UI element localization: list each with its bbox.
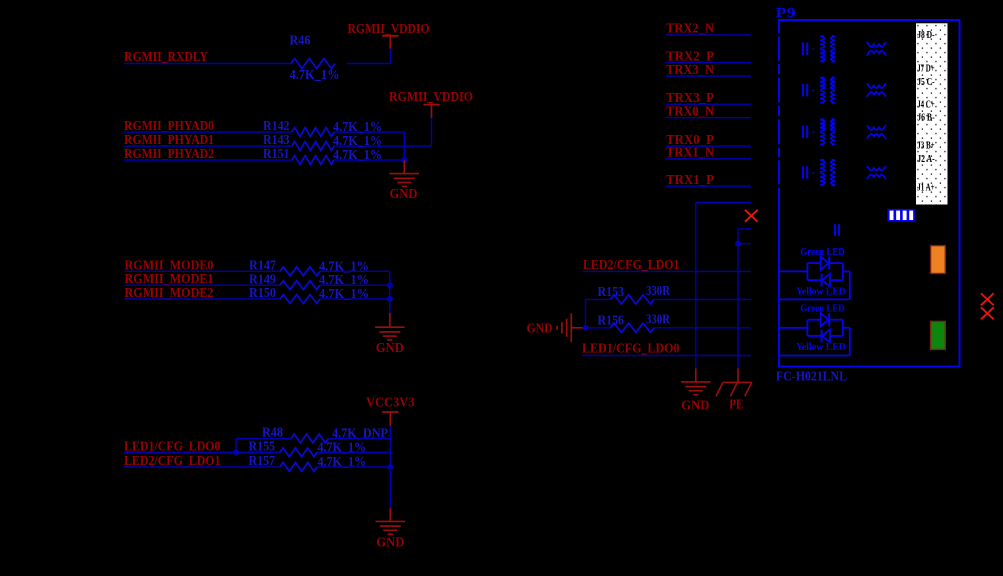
svg-text:R151: R151 (263, 147, 290, 162)
svg-text:4.7K_1%: 4.7K_1% (333, 134, 382, 149)
wire junction up to R153 (585, 299, 587, 327)
svg-text:J8 D-: J8 D- (917, 30, 935, 41)
svg-text:Green LED: Green LED (800, 303, 845, 314)
connector pin strip (916, 23, 948, 204)
svg-text:J5 C-: J5 C- (917, 77, 935, 88)
svg-text:J7 D+: J7 D+ (917, 64, 935, 75)
svg-text:RGMII_RXDLY: RGMII_RXDLY (124, 50, 208, 65)
ground GND stem 2 (389, 313, 391, 327)
wire R157 to junction (317, 466, 390, 468)
svg-text:P9: P9 (776, 6, 796, 21)
svg-text:LED1/CFG_LDO0: LED1/CFG_LDO0 (582, 341, 680, 356)
wire PE vertical (737, 229, 739, 369)
resistor R147 (280, 267, 320, 276)
ground GND 2 (375, 327, 405, 340)
svg-text:R156: R156 (598, 313, 625, 328)
svg-text:FC-H021LNL: FC-H021LNL (776, 370, 847, 385)
power VCC3V3 stem (389, 412, 391, 426)
ground GND 5 stub (571, 327, 583, 329)
ground GND stem 4 (695, 368, 697, 382)
resistor R153 (611, 295, 654, 304)
wire RGMII_MODE2 (125, 298, 281, 300)
wire TRX0_P (666, 145, 751, 147)
wire RGMII_MODE1 (125, 284, 281, 286)
wire LED2/CFG_LDO1 right (583, 270, 751, 272)
svg-text:4.7K_1%: 4.7K_1% (333, 148, 382, 163)
svg-text:GND: GND (390, 187, 418, 202)
wire TRX3_N (666, 75, 751, 77)
connector P9 body (779, 20, 960, 367)
wire shield stub 1 (738, 228, 751, 230)
wire R46 to RGMII_VDDIO (347, 63, 390, 65)
wire TRX1_P (666, 185, 751, 187)
junction at R149 (387, 282, 393, 288)
termination resistor block (887, 209, 914, 222)
wire TRX3_P (666, 103, 751, 105)
svg-text:R142: R142 (263, 119, 290, 134)
svg-text:Green LED: Green LED (800, 247, 845, 258)
svg-text:4.7K_1%: 4.7K_1% (319, 259, 369, 274)
power VCC3V3 bar (382, 411, 398, 413)
svg-text:4.7K_1%: 4.7K_1% (319, 273, 369, 288)
power RGMII_VDDIO bar (382, 35, 398, 37)
wire TRX1_N (666, 158, 751, 160)
svg-text:4.7K_1%: 4.7K_1% (318, 455, 367, 470)
svg-text:J4 C+: J4 C+ (917, 100, 935, 111)
resistor R151 (292, 156, 334, 165)
junction R157 vertical (387, 464, 393, 470)
no-connect X right 1 (981, 293, 994, 305)
wire LED1/CFG_LDO0 right (582, 355, 751, 357)
wire R151 to junction (334, 159, 404, 161)
svg-text:J3 B+: J3 B+ (917, 141, 935, 152)
svg-text:R143: R143 (263, 133, 290, 148)
ground GND 1 (390, 174, 420, 187)
svg-text:R150: R150 (249, 286, 276, 301)
wire R147 to vertical (320, 270, 390, 272)
svg-text:330R: 330R (646, 284, 671, 299)
svg-text:R48: R48 (262, 426, 283, 441)
transformer T4 with common-mode choke (803, 159, 886, 186)
svg-text:GND: GND (376, 341, 404, 356)
wire RGMII_PHYAD0 (124, 131, 292, 133)
svg-text:J1 A+: J1 A+ (917, 183, 935, 194)
ground GND 4 (681, 382, 711, 395)
ground GND stem 1 (403, 160, 405, 173)
svg-text:GND: GND (527, 321, 553, 336)
svg-text:RGMII_VDDIO: RGMII_VDDIO (348, 22, 430, 37)
capacitor center tap (834, 224, 836, 236)
junction at R151 (401, 157, 407, 163)
svg-text:R153: R153 (598, 285, 625, 300)
wire VCC3V3 to R48 (389, 426, 391, 438)
power RGMII_VDDIO 2 bar (423, 104, 439, 106)
resistor R143 (292, 142, 334, 151)
svg-text:4.7K_1%: 4.7K_1% (319, 287, 369, 302)
wire RGMII_PHYAD2 (124, 159, 292, 161)
wire R156 right (654, 327, 751, 329)
wire vertical to GND 3 (389, 439, 391, 509)
ground GND 3 (376, 521, 406, 534)
wire R150 to junction (320, 298, 390, 300)
svg-text:330R: 330R (646, 313, 671, 328)
ground GND 5 rotated (557, 313, 571, 342)
earth PE symbol (716, 382, 752, 396)
wire TRX0_N (666, 117, 751, 119)
wire RGMII_MODE0 (125, 270, 281, 272)
wire LED1/CFG_LDO0 (124, 451, 280, 453)
green LED lens (931, 321, 946, 349)
LED D2 green/yellow pair (779, 313, 850, 356)
wire R48 branch (235, 439, 237, 453)
LED D1 green/yellow pair (779, 256, 850, 299)
resistor R142 (292, 128, 334, 137)
resistor R46 (291, 59, 335, 69)
wire RGMII_RXDLY (124, 63, 291, 65)
svg-text:Yellow LED: Yellow LED (796, 286, 846, 297)
wire TRX2_N (666, 34, 751, 36)
resistor R149 (280, 281, 320, 290)
junction GND5 (583, 325, 589, 331)
ground GND stem 3 (389, 508, 391, 521)
wire R149 to junction (320, 284, 390, 286)
transformer T2 with common-mode choke (803, 77, 886, 104)
junction R48 branch on LED1 wire (233, 449, 239, 455)
wire R142 to vertical (334, 131, 404, 133)
transformer T1 with common-mode choke (803, 35, 886, 62)
wire R153 right (654, 298, 751, 300)
svg-text:Yellow LED: Yellow LED (796, 342, 846, 353)
transformer T3 with common-mode choke (803, 118, 886, 145)
svg-text:4.7K_1%: 4.7K_1% (290, 68, 340, 83)
earth PE stem (737, 368, 739, 382)
resistor R48 (291, 434, 328, 443)
wire LED2/CFG_LDO1 (124, 466, 280, 468)
svg-text:R157: R157 (249, 454, 276, 469)
wire shield stub 2 (738, 243, 751, 245)
junction at R150 (387, 296, 393, 302)
no-connect X pin (745, 210, 758, 222)
power RGMII_VDDIO 2 stem (431, 105, 433, 118)
wire junction to R156 (586, 327, 611, 329)
wire R48 to VCC3V3 vertical (329, 438, 391, 440)
resistor R157 (280, 463, 317, 472)
svg-text:PE: PE (729, 397, 743, 412)
svg-text:R147: R147 (249, 259, 276, 274)
svg-text:J6 B-: J6 B- (917, 112, 935, 123)
no-connect X right 2 (981, 307, 994, 319)
wire R143 to RGMII_VDDIO (334, 145, 432, 147)
svg-text:GND: GND (681, 398, 709, 413)
svg-text:4.7K_1%: 4.7K_1% (318, 440, 367, 455)
svg-text:4.7K_DNP: 4.7K_DNP (332, 427, 388, 442)
orange LED lens (931, 246, 946, 274)
svg-text:J2 A-: J2 A- (917, 154, 935, 165)
svg-text:R149: R149 (249, 272, 276, 287)
resistor R150 (280, 295, 320, 304)
wire shield pin to GND vertical (696, 201, 751, 203)
wire RGMII_PHYAD1 (124, 145, 292, 147)
wire RGMII_VDDIO 2 to R143 (431, 118, 433, 146)
svg-text:R155: R155 (249, 440, 276, 455)
resistor R155 (280, 448, 317, 457)
power RGMII_VDDIO stem (389, 36, 391, 49)
junction PE (735, 241, 741, 247)
svg-text:RGMII_VDDIO: RGMII_VDDIO (389, 90, 473, 105)
wire TRX2_P (666, 62, 751, 64)
svg-text:4.7K_1%: 4.7K_1% (333, 120, 382, 135)
wire R155 to vertical (317, 451, 390, 453)
svg-text:VCC3V3: VCC3V3 (366, 396, 415, 411)
svg-text:R46: R46 (290, 34, 311, 49)
resistor R156 (611, 323, 654, 332)
svg-text:GND: GND (376, 535, 404, 550)
